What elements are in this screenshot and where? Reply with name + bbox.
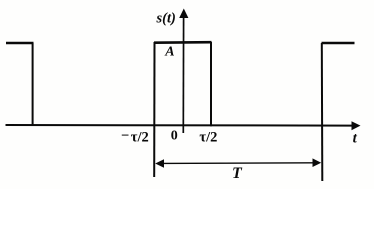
wire right partial pulse rising edge with extension down to dimension line [321,43,324,181]
svg-text:τ/2: τ/2 [131,129,149,145]
t-axis arrowhead [352,121,361,130]
wire right partial pulse top [322,42,355,45]
svg-text:T: T [232,165,243,182]
dimension right arrowhead [313,158,322,167]
wire center pulse right edge [210,42,212,126]
svg-text:−: − [121,128,129,144]
wire left partial pulse top [6,42,34,45]
svg-text:τ/2: τ/2 [199,129,217,145]
wire t-axis baseline [6,124,354,127]
wire s(t) vertical axis [182,15,184,133]
wire center pulse top [154,41,212,44]
svg-text:0: 0 [171,129,178,144]
svg-text:s(t): s(t) [156,11,176,27]
dimension left arrowhead [155,159,164,168]
wire period dimension line [162,162,315,165]
wire center pulse left edge with extension down to dimension line [153,42,155,177]
wire left partial pulse falling edge [32,43,34,125]
s-axis arrowhead [179,9,188,19]
svg-text:A: A [164,45,174,60]
